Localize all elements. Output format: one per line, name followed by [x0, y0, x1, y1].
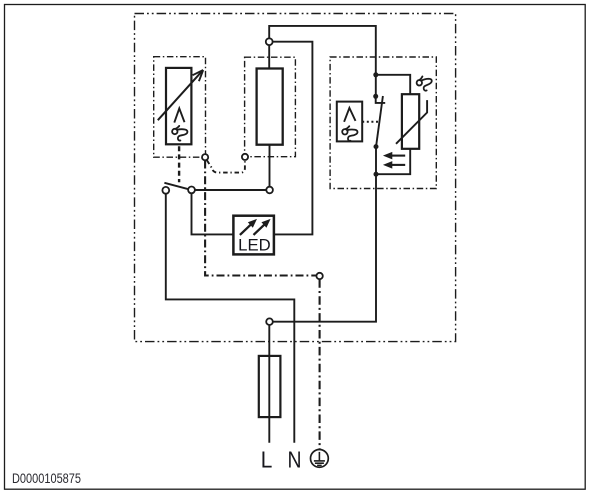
- nonlinear characteristic stroke through PTC: [396, 100, 427, 144]
- wire: top node up and across to thermal cutout input: [269, 26, 376, 96]
- wire: top node down to heating resistor: [268, 45, 270, 68]
- junction dot: cutout input / PTC branch: [373, 72, 378, 77]
- branch wire to PTC resistor: [376, 75, 410, 94]
- chevron (greater-than, rotated) in sensor: [174, 108, 184, 122]
- junction dot: cutout contact top: [373, 94, 378, 99]
- chevron in cutout threshold box: [344, 108, 355, 122]
- svg-text:L: L: [261, 447, 273, 473]
- wire: heating resistor bottom to junction node: [269, 145, 271, 187]
- thermostat setpoint block (dash-dot box): [154, 57, 206, 158]
- theta symbol in sensor: [172, 126, 187, 141]
- svg-text:LED: LED: [238, 237, 271, 255]
- wire: PTC bottom back to switch line: [376, 149, 410, 174]
- heat transfer arrow 2: [384, 162, 405, 168]
- thermal cutout block (dash-dot box): [330, 57, 436, 189]
- node: top junction circle: [266, 38, 273, 45]
- mechanical/earth link: knob shaft down to chassis node (dash-dot): [205, 161, 316, 276]
- wire: cutout output down and left to L junction node: [273, 147, 376, 322]
- PTC resistor (self-limiting): [402, 94, 419, 149]
- LED emission arrows: [240, 220, 270, 235]
- wire: switch left contact down, across and down to terminal N: [166, 194, 294, 443]
- wire: junction node to switch right contact: [195, 189, 266, 191]
- resistor (heating element): [257, 69, 283, 145]
- knob coupling circle (setpoint shaft): [202, 154, 208, 160]
- junction dot: blade bottom: [374, 144, 379, 149]
- wire: top node to LED right side: [273, 42, 313, 235]
- theta symbol in cutout threshold box: [342, 126, 357, 141]
- wire: L junction down to terminal L (through fuse): [268, 325, 270, 443]
- adjustable sensor resistor (setpoint, with arrow): [158, 68, 203, 144]
- junction dot: PTC return: [374, 172, 379, 177]
- cutout switch blade: [376, 96, 383, 146]
- node: chassis earth link circle: [316, 273, 322, 279]
- fixed contact hook of cutout: [376, 98, 386, 103]
- mechanical link: sensor to switch blade (bold dashed): [178, 146, 180, 182]
- theta symbol above PTC: [415, 75, 433, 93]
- heat transfer arrow 1: [384, 153, 405, 159]
- node: L supply junction: [266, 318, 273, 325]
- node: resistor / switch junction: [266, 187, 273, 194]
- svg-text:D0000105875: D0000105875: [12, 471, 81, 486]
- mechanical link curve between coupling circles (dash-dot): [207, 160, 245, 172]
- dotted actuation link: threshold box to blade: [362, 121, 378, 123]
- terminal PE (earth symbol): [311, 450, 329, 468]
- switch S1 (thermostat contact): [162, 183, 195, 194]
- temperature threshold box in cutout: [337, 102, 362, 142]
- earth conductor (dash-dot) down to PE terminal: [319, 279, 321, 449]
- enclosure boundary (appliance housing, dash-dot): [135, 14, 456, 342]
- fuse F1: [259, 356, 281, 417]
- knob coupling circle (heater block side): [242, 154, 248, 160]
- wire: switch right contact down to LED left side: [192, 193, 234, 234]
- heating resistor block (dash-dot box): [245, 57, 296, 157]
- LED indicator box: [233, 216, 274, 255]
- svg-text:N: N: [288, 447, 302, 473]
